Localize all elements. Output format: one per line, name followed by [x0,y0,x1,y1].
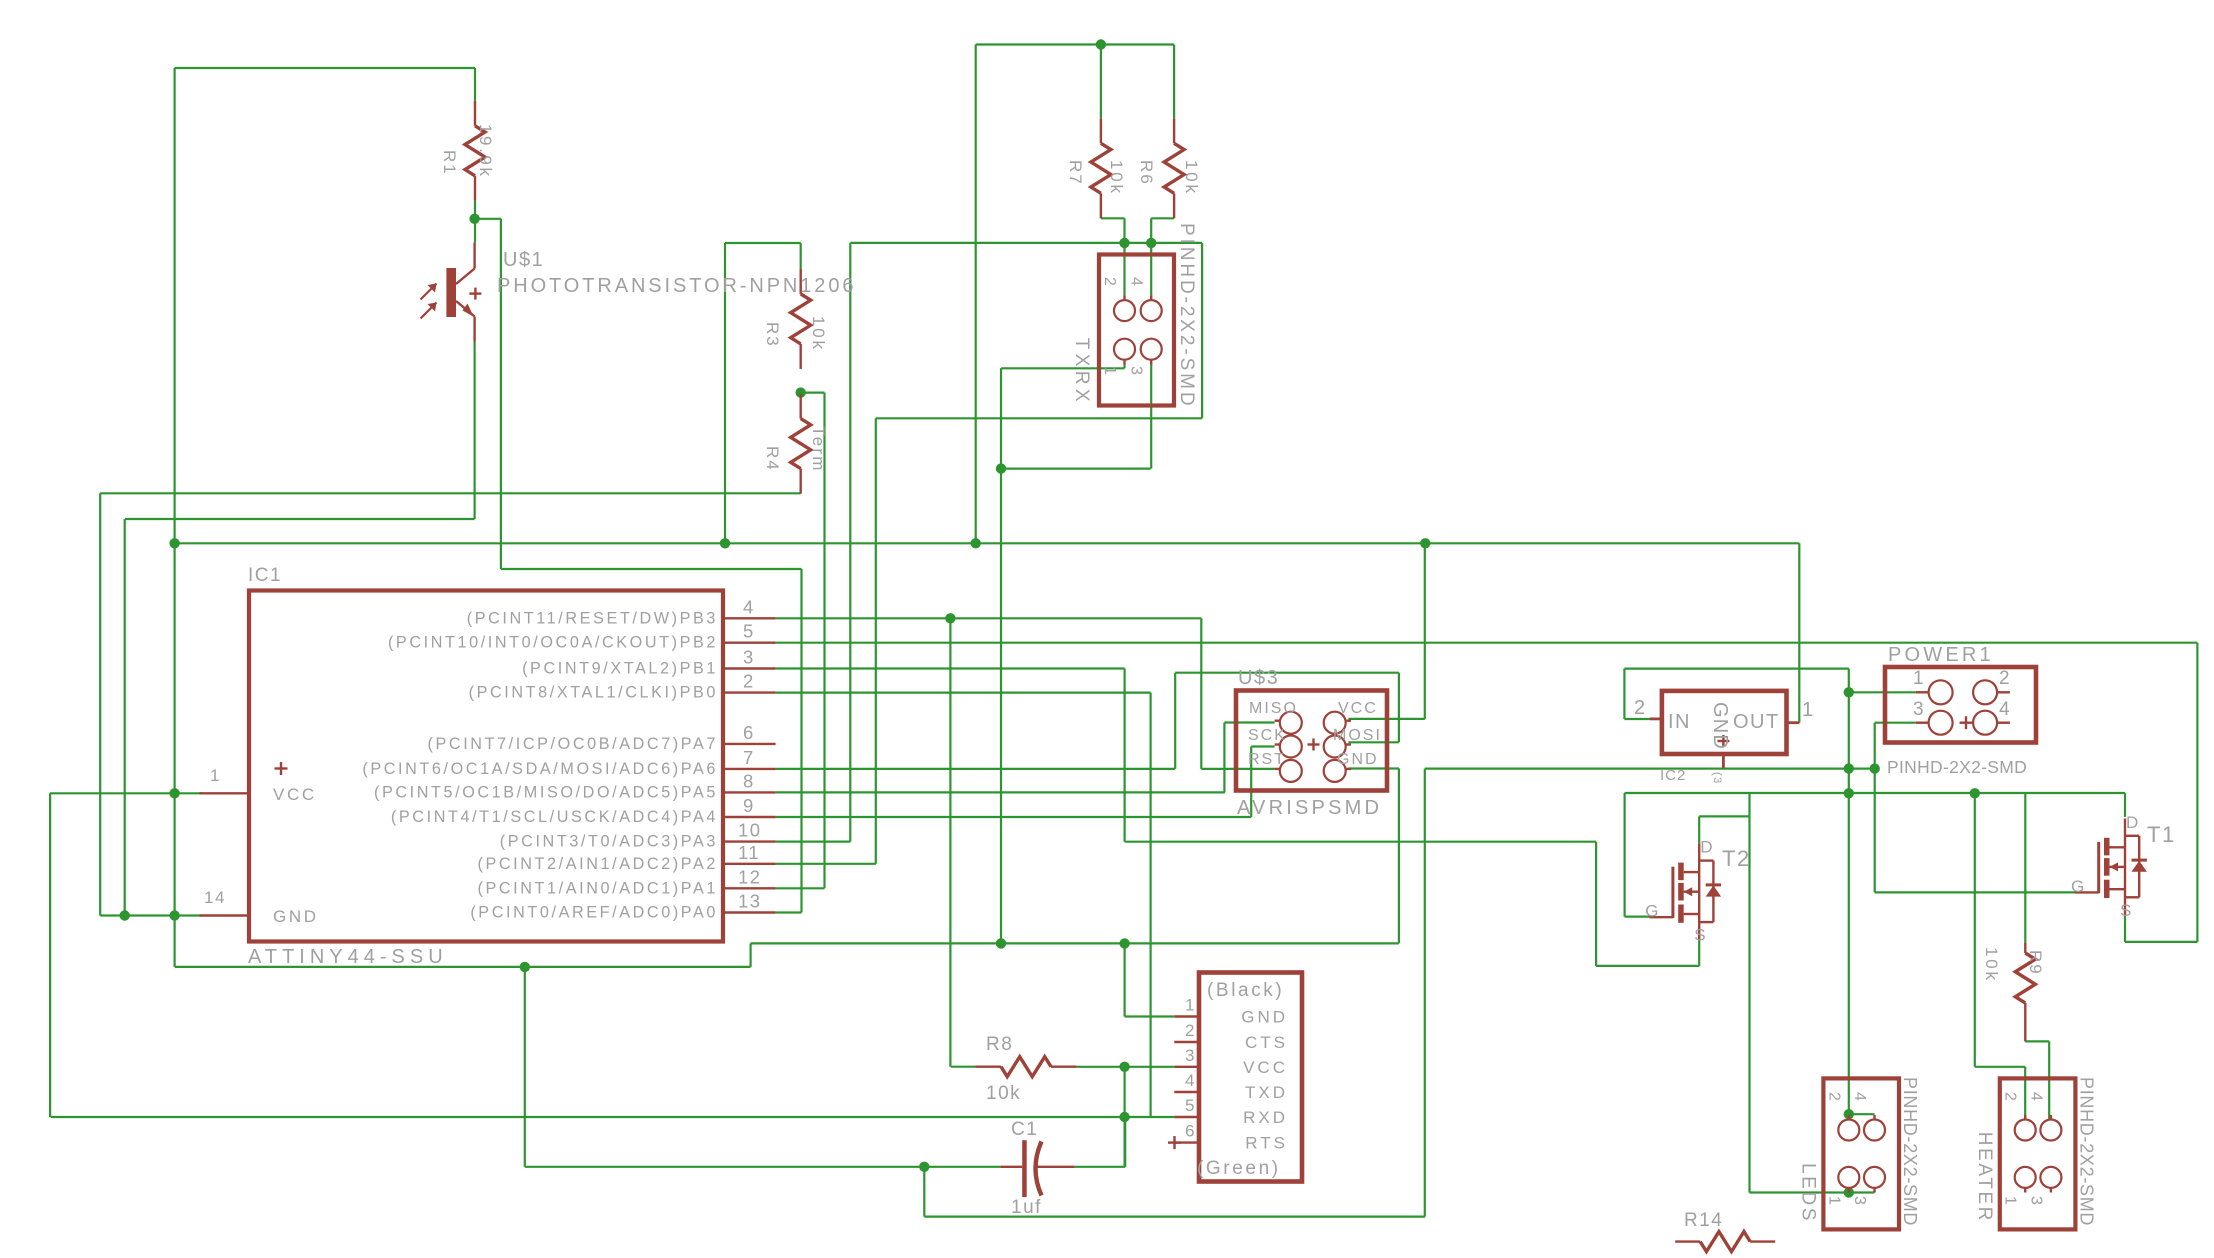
svg-text:2: 2 [2002,1092,2019,1102]
svg-text:PINHD-2X2-SMD: PINHD-2X2-SMD [2076,1077,2096,1226]
svg-text:4: 4 [1999,699,2011,720]
svg-text:CTS: CTS [1245,1033,1288,1052]
svg-text:(PCINT3/T0/ADC3)PA3: (PCINT3/T0/ADC3)PA3 [500,833,718,851]
svg-text:1: 1 [1802,699,1815,721]
svg-text:RXD: RXD [1243,1108,1288,1127]
svg-text:4: 4 [1128,277,1145,287]
svg-text:2: 2 [1825,1092,1842,1102]
svg-text:D: D [2126,813,2140,832]
svg-text:IC2: IC2 [1660,767,1686,784]
svg-text:PINHD-2X2-SMD: PINHD-2X2-SMD [1176,223,1197,409]
svg-text:SCK: SCK [1248,727,1287,744]
svg-text:5: 5 [1185,1096,1196,1115]
svg-text:(Green): (Green) [1197,1158,1281,1179]
svg-text:3: 3 [2027,1196,2044,1206]
svg-text:R7: R7 [1066,160,1085,186]
svg-text:2: 2 [1634,697,1647,719]
svg-text:RST: RST [1248,751,1286,768]
svg-text:T1: T1 [2147,822,2176,847]
svg-text:6: 6 [1185,1122,1196,1141]
svg-text:4: 4 [1185,1071,1196,1090]
svg-text:VCC: VCC [1338,700,1378,717]
svg-text:PINHD-2X2-SMD: PINHD-2X2-SMD [1887,757,2027,777]
svg-text:S: S [2120,901,2133,920]
svg-text:3: 3 [1851,1196,1868,1206]
svg-text:10k: 10k [1982,947,2001,983]
svg-text:8: 8 [743,770,755,791]
svg-text:C1: C1 [1011,1119,1038,1140]
svg-text:U$3: U$3 [1238,667,1279,689]
svg-text:1: 1 [1185,996,1196,1015]
svg-text:(3: (3 [1711,772,1723,785]
svg-text:MOSI: MOSI [1333,727,1382,744]
svg-text:TXD: TXD [1245,1083,1288,1102]
svg-text:(PCINT7/ICP/OC0B/ADC7)PA7: (PCINT7/ICP/OC0B/ADC7)PA7 [428,735,718,753]
svg-text:2: 2 [1101,277,1118,287]
svg-text:ATTINY44-SSU: ATTINY44-SSU [248,946,448,968]
svg-text:10k: 10k [1182,160,1201,196]
svg-text:D: D [1700,838,1714,857]
svg-text:IN: IN [1668,711,1691,733]
svg-text:1: 1 [1913,668,1925,689]
svg-text:GND: GND [1241,1008,1288,1027]
svg-text:VCC: VCC [1243,1058,1288,1077]
svg-text:3: 3 [743,647,755,668]
svg-text:U$1: U$1 [503,249,544,271]
svg-text:3: 3 [1913,699,1925,720]
svg-text:R9: R9 [2026,950,2045,976]
svg-text:T2: T2 [1722,846,1751,871]
svg-text:1: 1 [210,766,221,785]
svg-text:R6: R6 [1137,160,1156,186]
svg-text:TXRX: TXRX [1071,338,1092,406]
svg-text:IC1: IC1 [248,565,282,586]
svg-text:MISO: MISO [1249,700,1298,717]
svg-text:PINHD-2X2-SMD: PINHD-2X2-SMD [1900,1077,1920,1226]
svg-text:AVRISPSMD: AVRISPSMD [1237,797,1382,819]
svg-text:9: 9 [743,795,755,816]
svg-text:(PCINT6/OC1A/SDA/MOSI/ADC6)PA6: (PCINT6/OC1A/SDA/MOSI/ADC6)PA6 [362,760,718,778]
svg-text:GND: GND [273,907,319,926]
svg-text:2: 2 [1185,1021,1196,1040]
svg-text:GND: GND [1709,702,1731,750]
svg-text:(PCINT4/T1/SCL/USCK/ADC4)PA4: (PCINT4/T1/SCL/USCK/ADC4)PA4 [391,808,718,826]
svg-text:POWER1: POWER1 [1888,644,1994,666]
svg-text:1uf: 1uf [1011,1197,1042,1218]
svg-text:Term: Term [809,426,828,473]
svg-text:10k: 10k [1107,160,1126,196]
svg-text:R4: R4 [763,446,782,472]
svg-text:(PCINT8/XTAL1/CLKI)PB0: (PCINT8/XTAL1/CLKI)PB0 [469,684,718,702]
svg-text:10k: 10k [809,316,828,352]
svg-text:1: 1 [1101,366,1118,376]
svg-text:PHOTOTRANSISTOR-NPN1206: PHOTOTRANSISTOR-NPN1206 [497,275,856,297]
svg-text:4: 4 [2027,1092,2044,1102]
svg-text:GND: GND [1337,751,1379,768]
svg-text:S: S [1694,926,1707,945]
svg-text:4: 4 [743,596,755,617]
svg-text:6: 6 [743,722,755,743]
svg-text:14: 14 [204,888,226,907]
svg-text:HEATER: HEATER [1974,1132,1995,1223]
svg-text:OUT: OUT [1733,711,1780,733]
svg-text:RTS: RTS [1245,1134,1288,1153]
svg-text:19.9k: 19.9k [476,124,495,179]
svg-text:R8: R8 [986,1034,1013,1055]
svg-text:R1: R1 [440,150,459,176]
svg-text:10k: 10k [986,1083,1021,1104]
svg-text:7: 7 [743,747,755,768]
svg-text:VCC: VCC [273,785,317,804]
svg-text:LEDS: LEDS [1797,1163,1818,1223]
svg-text:2: 2 [743,671,755,692]
svg-text:(PCINT5/OC1B/MISO/DO/ADC5)PA5: (PCINT5/OC1B/MISO/DO/ADC5)PA5 [374,783,718,801]
svg-text:(PCINT11/RESET/DW)PB3: (PCINT11/RESET/DW)PB3 [467,609,718,627]
svg-text:13: 13 [738,891,762,912]
svg-text:1: 1 [1825,1196,1842,1206]
svg-text:1: 1 [2002,1196,2019,1206]
svg-text:G: G [1645,902,1660,921]
svg-text:(PCINT9/XTAL2)PB1: (PCINT9/XTAL2)PB1 [522,660,718,678]
svg-text:2: 2 [1999,668,2011,689]
svg-text:3: 3 [1128,366,1145,376]
svg-text:R3: R3 [763,322,782,348]
svg-text:4: 4 [1851,1092,1868,1102]
svg-text:3: 3 [1185,1046,1196,1065]
svg-text:12: 12 [738,866,762,887]
svg-text:(PCINT0/AREF/ADC0)PA0: (PCINT0/AREF/ADC0)PA0 [470,904,718,922]
svg-text:11: 11 [738,842,760,863]
svg-text:(PCINT1/AIN0/ADC1)PA1: (PCINT1/AIN0/ADC1)PA1 [477,879,718,897]
svg-text:(PCINT10/INT0/OC0A/CKOUT)PB2: (PCINT10/INT0/OC0A/CKOUT)PB2 [388,634,718,652]
svg-text:(PCINT2/AIN1/ADC2)PA2: (PCINT2/AIN1/ADC2)PA2 [477,855,718,873]
svg-text:G: G [2071,877,2086,896]
svg-text:(Black): (Black) [1207,980,1284,1001]
svg-text:5: 5 [743,621,755,642]
svg-text:R14: R14 [1684,1210,1723,1231]
svg-text:10: 10 [738,820,762,841]
